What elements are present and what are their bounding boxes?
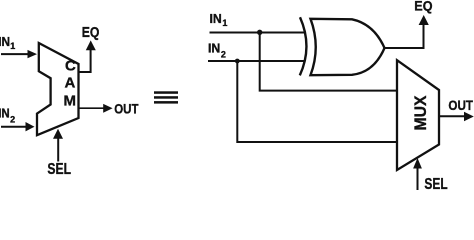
- wire OUT output (right): [440, 115, 465, 117]
- svg-text:OUT: OUT: [448, 97, 473, 113]
- wire tap IN1 to MUX input A: [260, 33, 397, 91]
- svg-text:EQ: EQ: [414, 0, 432, 13]
- svg-text:IN: IN: [0, 35, 10, 49]
- wire IN2 to XOR: [208, 60, 305, 62]
- wire IN1 input arrow: [1, 53, 29, 55]
- svg-text:OUT: OUT: [114, 101, 139, 117]
- svg-text:1: 1: [10, 41, 15, 51]
- svg-text:2: 2: [10, 114, 15, 124]
- wire tap IN2 to MUX input B: [237, 61, 397, 142]
- svg-text:IN: IN: [208, 41, 220, 55]
- svg-text:M: M: [64, 93, 77, 110]
- svg-text:2: 2: [221, 50, 226, 60]
- XOR gate U1 input arc: [300, 17, 307, 75]
- svg-text:EQ: EQ: [82, 24, 100, 41]
- junction on IN1 line: [257, 30, 262, 35]
- CAM cell mux-style body: [37, 43, 79, 135]
- wire SEL select arrow (right): [417, 168, 419, 190]
- svg-text:IN: IN: [0, 106, 10, 120]
- multiplexer MUX body: [397, 60, 439, 170]
- svg-text:IN: IN: [210, 12, 222, 26]
- equivalence symbol (triple bar): [154, 91, 178, 94]
- wire IN1 to XOR: [210, 32, 305, 34]
- wire SEL select arrow (left): [57, 138, 59, 162]
- svg-text:SEL: SEL: [47, 161, 71, 178]
- svg-text:1: 1: [222, 18, 227, 28]
- wire EQ output (right): [385, 25, 424, 49]
- wire IN2 input arrow: [1, 126, 27, 128]
- wire EQ output (left): [80, 50, 91, 73]
- junction on IN2 line: [235, 59, 240, 64]
- wire OUT output (left): [80, 107, 105, 109]
- svg-text:A: A: [64, 74, 75, 91]
- XOR gate U1 body: [311, 19, 385, 75]
- svg-text:C: C: [65, 58, 76, 75]
- svg-text:SEL: SEL: [424, 176, 447, 190]
- svg-text:MUX: MUX: [411, 95, 430, 131]
